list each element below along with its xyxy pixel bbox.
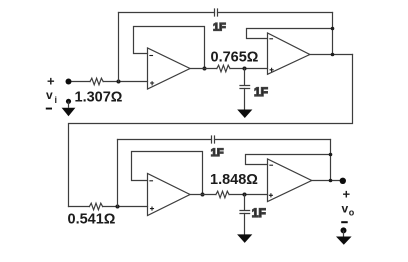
svg-text:1.848Ω: 1.848Ω — [210, 172, 258, 188]
wire outer feedback top left segment — [119, 12, 215, 14]
wire U3 inverting feedback loop — [132, 152, 203, 195]
node Vi- terminal — [66, 99, 71, 104]
ground (input source) — [68, 101, 70, 108]
wire stage2 input to resistor — [69, 206, 90, 208]
node U1 output junction — [203, 67, 207, 71]
wire U3 output — [190, 194, 216, 196]
wire stage2 outer feedback top left segment — [118, 139, 212, 141]
svg-text:1F: 1F — [252, 206, 266, 220]
svg-text:v: v — [46, 88, 53, 102]
resistor 0.765Ω — [217, 65, 230, 72]
wire outer feedback left vertical — [118, 13, 120, 82]
node Vo+ terminal — [340, 178, 346, 184]
node U4 feedback junction — [329, 153, 333, 157]
wire input to resistor — [69, 81, 91, 83]
wire resistor to op-amp U3 + input — [103, 206, 148, 208]
capacitor 1F (series, stage 2) — [212, 136, 215, 143]
svg-text:1F: 1F — [211, 147, 224, 159]
svg-text:+: + — [343, 186, 351, 201]
svg-text:v: v — [342, 202, 349, 216]
op-amp U3 — [148, 174, 191, 216]
wire outer feedback right vertical — [332, 13, 334, 55]
svg-text:1F: 1F — [213, 22, 226, 34]
node U2 output junction — [331, 53, 335, 57]
svg-text:1.307Ω: 1.307Ω — [75, 90, 123, 106]
ground (output) — [343, 230, 345, 236]
ground (stage 1 shunt cap) — [237, 110, 252, 119]
capacitor 1F (shunt, stage 2) — [244, 195, 246, 211]
resistor 1.848Ω — [216, 191, 229, 198]
node Vi+ terminal — [66, 79, 72, 85]
svg-text:o: o — [349, 208, 355, 218]
wire U4 output — [312, 180, 343, 182]
wire stage2 outer feedback left vertical — [117, 140, 119, 207]
wire outer feedback top right segment — [218, 12, 333, 14]
wire coupling stage1 output to stage2 input — [69, 55, 353, 207]
svg-text:0.541Ω: 0.541Ω — [68, 212, 116, 228]
node Vo- terminal — [341, 221, 348, 223]
svg-text:i: i — [55, 95, 58, 105]
wire U4 inverting feedback loop — [246, 155, 331, 165]
wire U2 output — [310, 54, 353, 56]
svg-text:0.765Ω: 0.765Ω — [211, 50, 259, 66]
ground (stage 2 shunt cap) — [237, 234, 252, 243]
resistor 0.541Ω — [89, 203, 102, 210]
node B (shunt cap node, stage 1) — [243, 67, 247, 71]
capacitor 1F (series, stage 1) — [215, 9, 218, 16]
wire stage2 outer feedback right vertical — [330, 140, 332, 181]
wire U1 output — [190, 68, 217, 70]
op-amp U2 — [268, 33, 310, 74]
op-amp U1 — [148, 48, 191, 89]
wire resistor to op-amp U1 + input — [103, 81, 147, 83]
svg-text:+: + — [47, 74, 55, 89]
node U3 output junction — [201, 193, 205, 197]
capacitor 1F (shunt, stage 1) — [244, 69, 246, 85]
svg-text:1F: 1F — [254, 85, 268, 99]
wire U1 inverting feedback loop — [134, 27, 205, 69]
op-amp U4 — [268, 159, 312, 202]
wire 0.765Ω to op-amp U2 + input — [230, 68, 268, 70]
resistor 1.307Ω — [90, 78, 103, 85]
node U2 feedback junction — [331, 27, 335, 31]
wire stage2 outer feedback top right segment — [215, 139, 331, 141]
node U4 output junction — [329, 179, 333, 183]
node A (junction after 1.307Ω) — [117, 80, 121, 84]
wire U2 inverting feedback loop — [247, 29, 333, 39]
node D (shunt cap node, stage 2) — [243, 193, 247, 197]
wire 1.848Ω to op-amp U4 + input — [229, 194, 267, 196]
node C (junction after 0.541Ω) — [116, 205, 120, 209]
